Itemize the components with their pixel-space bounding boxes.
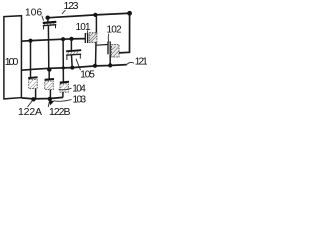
junction mid-63 [62,66,65,69]
svg-text:123: 123 [64,0,79,12]
transistor 104 (middle, gate 122B) [45,79,54,99]
svg-text:103: 103 [73,95,87,106]
leader 105 [76,59,81,70]
leader 121 [127,62,134,64]
wire TFT3 gate vertical [62,68,64,82]
transistor 103 (left, gate 122A) [28,77,37,99]
junction gatewire-cap [69,37,73,41]
junction rail-101 [93,13,97,17]
svg-text:100: 100 [5,56,19,68]
leader 101 [86,30,89,34]
svg-text:122B: 122B [49,106,71,118]
junction rail-106 [46,16,50,20]
svg-text:122A: 122A [18,106,42,118]
wire TFT2 gate vertical [48,70,50,79]
transistor 101 drain lead [95,15,97,33]
power line 123 (top rail) [47,13,130,18]
junction gatewire-mid [61,37,65,41]
svg-text:102: 102 [107,24,122,35]
junction mid-101 [93,64,97,68]
junction bottom-A [31,97,35,101]
svg-text:121: 121 [135,56,147,67]
bottom wire [21,97,63,99]
transistor 102 [108,42,119,66]
transistor 101 [85,33,97,66]
svg-text:106: 106 [25,7,42,18]
capacitor 105 top lead [70,39,72,51]
junction bottom-B [48,97,52,101]
capacitor 105 [66,50,81,67]
node wire (gate wire y~40) [22,39,86,42]
wire 106 source down to mid wire [47,26,49,70]
leader 102 [107,34,110,43]
leader 122B [48,100,49,107]
wire 101-102 link [97,44,108,47]
wire TFT1 gate vertical [30,41,32,77]
junction gatewire-left [28,39,32,43]
leader 122A [28,100,33,107]
transistor 105b (right, pointed by 104/103) [60,82,69,98]
junction rail-right [127,11,132,16]
junction mid-102 [108,63,112,67]
junction mid-cap [70,66,74,70]
mid wire (node B) [22,65,127,71]
element 100 box [4,16,22,99]
svg-text:101: 101 [76,22,91,33]
transistor 106 [43,18,57,30]
svg-text:104: 104 [72,83,86,94]
leader 123 [62,10,66,14]
junction mid-106 [47,67,51,71]
wire right vertical + 102 drain link [119,13,130,53]
svg-text:105: 105 [80,70,95,81]
wire node-63 vertical [62,39,64,68]
leader 103 with arrowhead [54,100,72,102]
leader 104 [59,88,72,90]
leader 106 [42,16,44,21]
